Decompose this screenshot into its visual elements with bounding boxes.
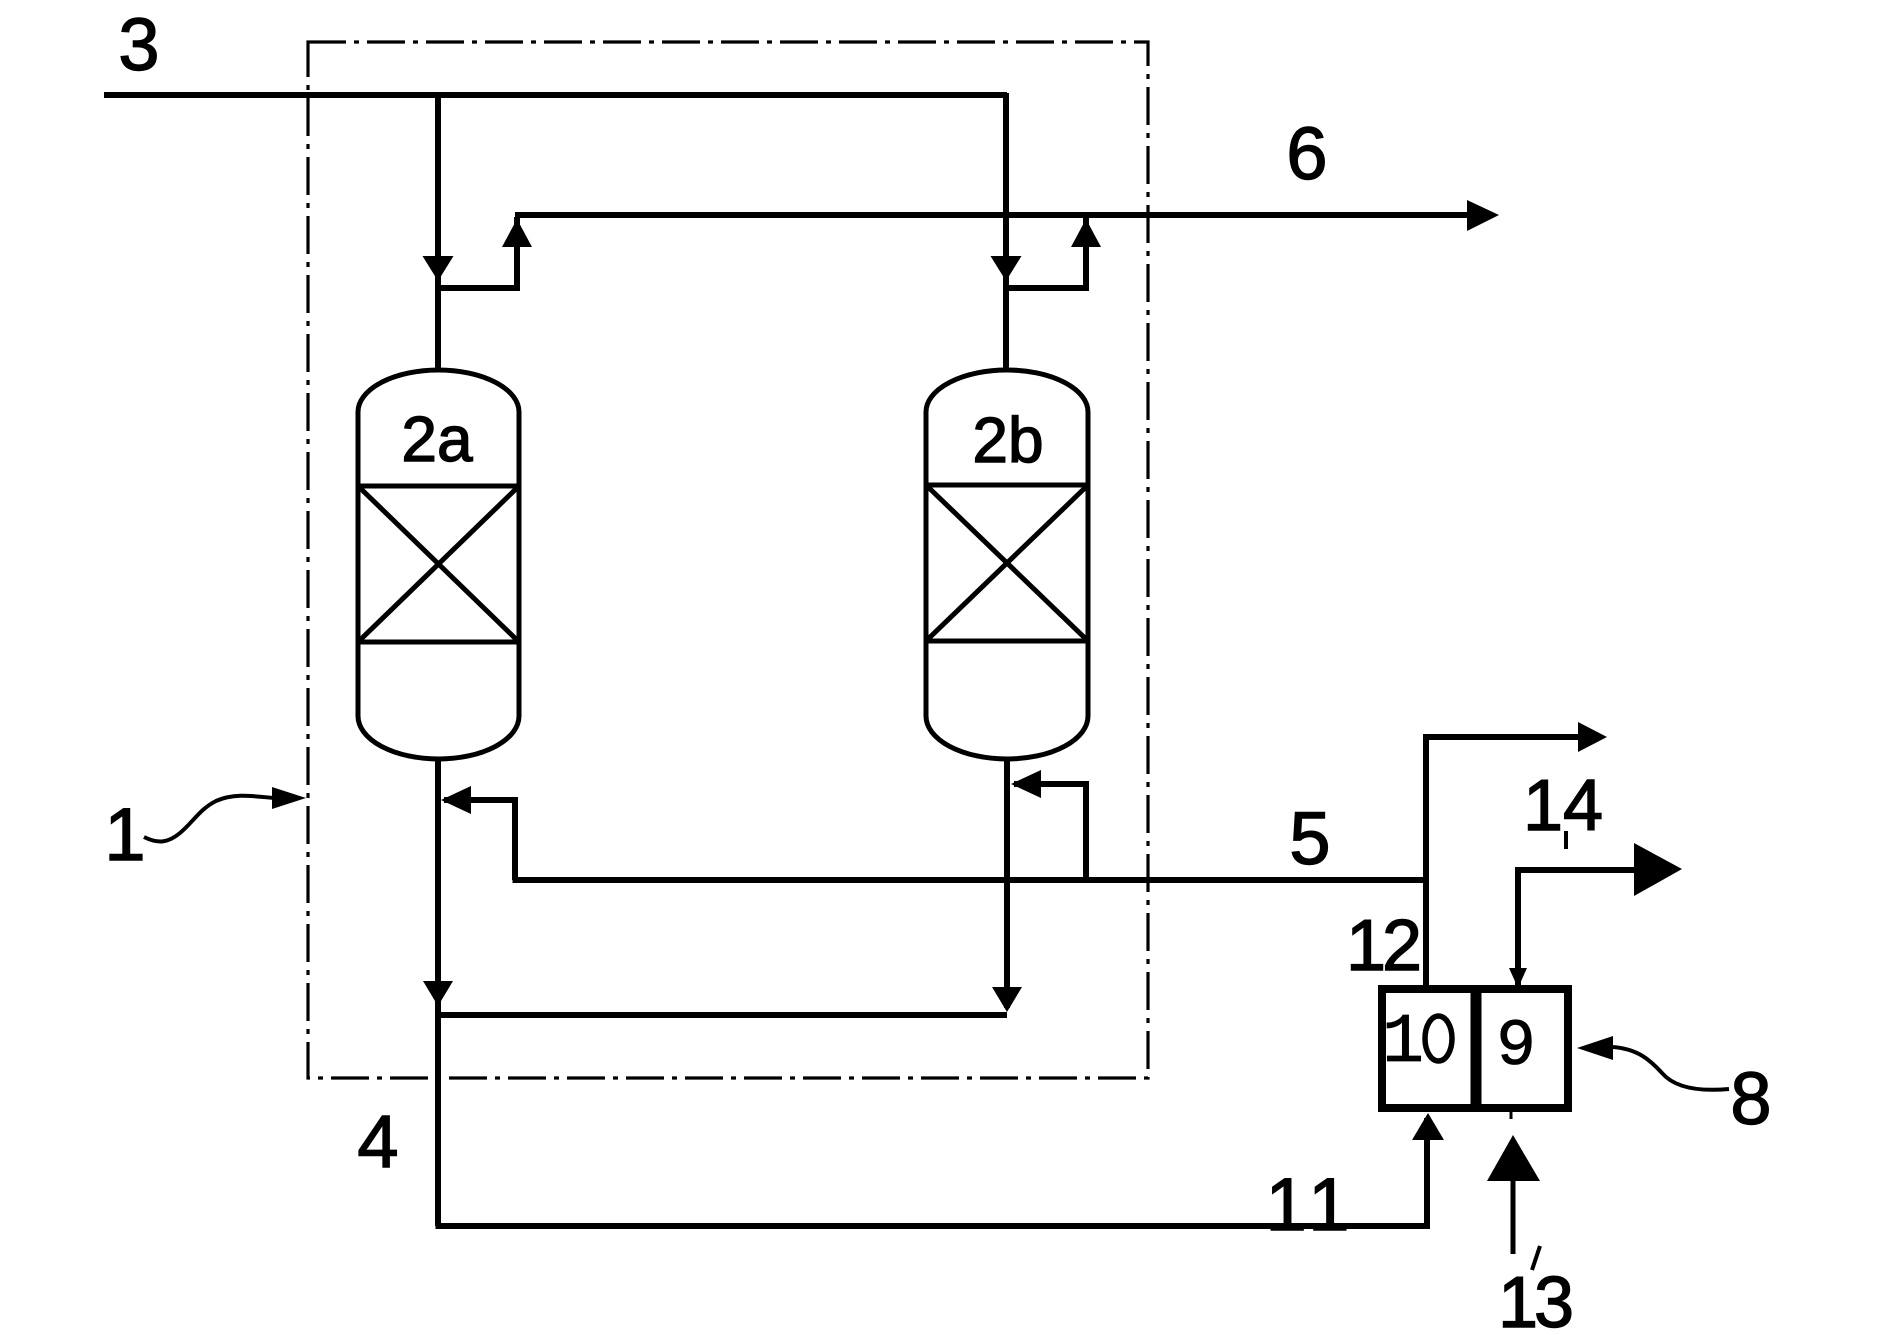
svg-text:1: 1 [1382, 1004, 1424, 1083]
arrow up from 2b to line 6 [1071, 219, 1101, 247]
arrow down into 2a feed [423, 256, 454, 281]
arrow down into 2b feed [991, 256, 1022, 281]
svg-text:2a: 2a [401, 403, 473, 475]
wire stream 5 [513, 877, 1427, 883]
arrow down 2b lower [992, 987, 1022, 1012]
leader line for label 8 [1613, 1047, 1729, 1090]
arrow right upper outlet [1578, 722, 1607, 752]
leader line for label 1 [144, 796, 274, 842]
boundary box 1 (dash-dot) [308, 42, 1148, 1078]
wire jog 2a bottom inlet [444, 800, 515, 880]
svg-text:6: 6 [1286, 112, 1327, 195]
wire line 6 [515, 212, 1470, 218]
svg-text:4: 4 [357, 1100, 398, 1183]
arrowheads [272, 200, 1682, 1181]
arrow right leader 1 [272, 787, 306, 809]
wire stream 3 corner down to 2b [1003, 93, 1009, 371]
svg-text:11: 11 [1266, 1163, 1357, 1246]
arrow down 2a lower [423, 981, 453, 1006]
wire jog 2a top [436, 217, 517, 288]
arrow left into 2a bottom [441, 786, 471, 814]
tick under box 9 [1510, 1108, 1513, 1119]
svg-text:3: 3 [118, 3, 159, 86]
wire stream 13 shaft [1511, 1178, 1516, 1254]
tick near 13 [1532, 1246, 1540, 1270]
wire 2b bottom outlet [1004, 757, 1010, 1008]
svg-text:5: 5 [1289, 797, 1330, 880]
arrow small down into box 9 [1509, 968, 1527, 988]
svg-text:14: 14 [1523, 766, 1603, 846]
vessel 2a [358, 370, 519, 759]
wire stream 11 [436, 1118, 1428, 1226]
wire stream 14 [1518, 870, 1640, 987]
wire cross line y1015 [438, 1012, 1007, 1018]
wire 2a bottom outlet [435, 759, 441, 1226]
wire jog 2b bottom inlet [1014, 784, 1086, 880]
vessel 2b [926, 370, 1088, 759]
svg-text:9: 9 [1496, 1009, 1536, 1084]
arrow up into box 10 [1412, 1113, 1444, 1140]
wire riser x1426 [1426, 737, 1584, 989]
arrow big up stream 13 [1487, 1135, 1540, 1181]
wire jog 2b top [1004, 217, 1086, 288]
wire branch down to 2a [435, 95, 441, 371]
svg-text:1: 1 [104, 793, 145, 876]
box 10 and 9 (unit 8/12) [1382, 989, 1568, 1108]
arrow left into 2b bottom [1011, 770, 1041, 798]
svg-text:13: 13 [1498, 1263, 1571, 1335]
svg-text:8: 8 [1730, 1057, 1771, 1140]
arrow left leader 8 [1577, 1036, 1613, 1060]
arrow up from 2a to line 6 [502, 219, 532, 247]
svg-text:12: 12 [1346, 906, 1419, 986]
wire stream 3 horizontal [104, 92, 1007, 98]
arrow right stream 14 [1634, 843, 1682, 896]
tick under label 14 [1564, 831, 1568, 849]
svg-text:2b: 2b [972, 404, 1043, 476]
arrow right end of line 6 [1467, 200, 1499, 231]
